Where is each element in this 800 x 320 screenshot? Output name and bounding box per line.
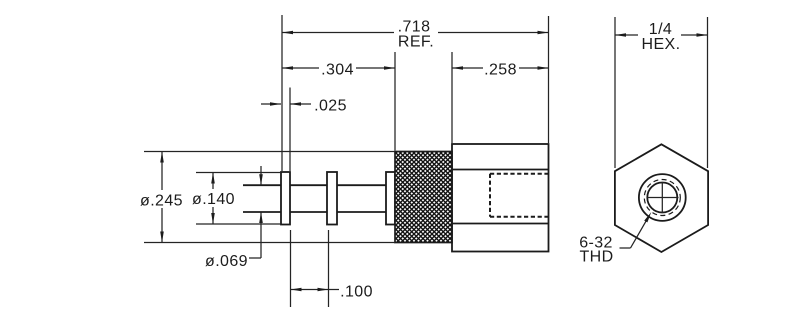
svg-text:THD: THD xyxy=(579,249,613,266)
knurled section xyxy=(395,152,452,243)
extension line body left (.258) xyxy=(451,52,453,143)
center cross xyxy=(647,182,679,213)
dimension .025 xyxy=(261,98,347,115)
extension line flange1 left (top dims) xyxy=(281,15,283,171)
extension line body right (.718/.258) xyxy=(548,16,550,143)
svg-text:ø.140: ø.140 xyxy=(192,191,235,208)
thread circle dashed (end view) xyxy=(644,180,680,216)
hex body (side view) xyxy=(452,144,549,252)
pin lead (ø.069 shaft) xyxy=(243,185,386,212)
dimension 1/4 HEX. xyxy=(615,21,708,53)
hex body (end view) xyxy=(615,144,708,252)
svg-text:.304: .304 xyxy=(321,62,354,79)
hidden thread hole (dashed) xyxy=(490,174,549,217)
dimension .304 xyxy=(282,62,395,79)
extension line flange1 right (.025) xyxy=(289,88,291,172)
svg-text:HEX.: HEX. xyxy=(642,36,681,53)
hex flat lines (side view) xyxy=(452,169,549,171)
dimension .718 REF xyxy=(282,19,549,51)
extension line knurl left (.304) xyxy=(394,52,396,151)
svg-text:REF.: REF. xyxy=(398,34,434,51)
shoulder circle (end view) xyxy=(639,174,686,221)
svg-text:.025: .025 xyxy=(314,98,347,115)
svg-text:ø.069: ø.069 xyxy=(205,253,248,270)
dimension .100 xyxy=(291,284,373,301)
flange 3 (disc at knurl) xyxy=(386,172,395,225)
dimension .258 xyxy=(452,62,549,79)
thread minor circle (end view) xyxy=(647,183,677,213)
flange 1 xyxy=(281,172,290,225)
svg-text:.258: .258 xyxy=(484,62,517,79)
.100 extension lines xyxy=(290,230,292,307)
dimension ø.245 xyxy=(140,152,183,243)
svg-text:ø.245: ø.245 xyxy=(140,193,183,210)
dimension ø.140 xyxy=(192,173,235,225)
dimension ø.069 leader xyxy=(205,166,263,270)
6-32 THD leader and note xyxy=(579,212,651,266)
ø.140 extension lines (flange OD) xyxy=(196,172,281,174)
flange 2 xyxy=(327,172,337,225)
ø.245 extension lines (knurl OD) xyxy=(144,151,395,153)
svg-text:.100: .100 xyxy=(340,284,373,301)
1/4 HEX extension lines xyxy=(614,17,616,168)
